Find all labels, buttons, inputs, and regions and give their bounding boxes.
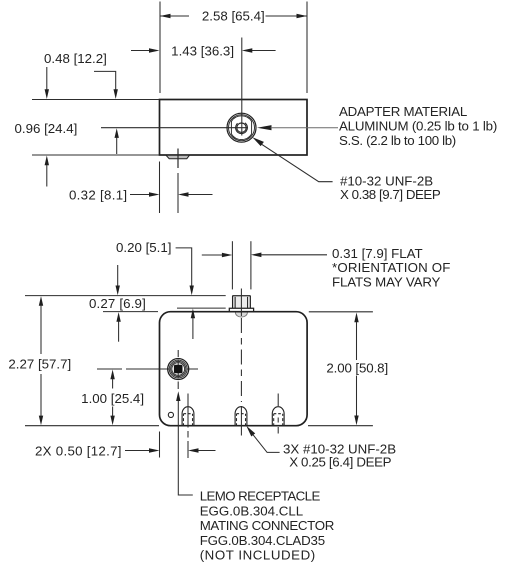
bottom edge extension left (25, 425, 159, 427)
svg-text:0.48 [12.2]: 0.48 [12.2] (44, 51, 107, 66)
svg-text:0.31 [7.9] FLAT: 0.31 [7.9] FLAT (332, 246, 423, 261)
svg-text:2.00 [50.8]: 2.00 [50.8] (326, 360, 388, 375)
front view body outline (160, 312, 308, 426)
svg-text:EGG.0B.304.CLL: EGG.0B.304.CLL (200, 503, 303, 518)
dimension 2.00 [50.8] (326, 313, 388, 426)
thread minor circle (237, 123, 246, 132)
bottom hole 1 (182, 394, 194, 438)
note flat orientation (332, 246, 450, 290)
svg-text:LEMO RECEPTACLE: LEMO RECEPTACLE (200, 489, 321, 504)
line A stud-top extension (25, 295, 226, 297)
top view body outline (160, 100, 308, 156)
mounting hole chamfer circle (229, 115, 255, 141)
svg-text:0.96 [24.4]: 0.96 [24.4] (15, 121, 78, 136)
line B flange-top extension (177, 307, 226, 309)
dimension 2.27 [57.7] (8, 296, 71, 425)
small index hole (168, 412, 173, 417)
body-top extension right (309, 311, 373, 313)
extension line top-left (x=160 above rect) (159, 2, 161, 94)
stud flats outline (231, 116, 251, 140)
dimension 0.32 [8.1] (69, 188, 213, 203)
0.20 partner down arrow (116, 265, 120, 295)
top view bottom tab (166, 155, 190, 159)
0.96 up arrow (45, 156, 49, 187)
svg-text:0.20 [5.1]: 0.20 [5.1] (116, 240, 171, 255)
svg-text:X 0.25 [6.4] DEEP: X 0.25 [6.4] DEEP (289, 455, 391, 470)
leader arrow to adapter material note (257, 125, 338, 130)
svg-text:(NOT INCLUDED): (NOT INCLUDED) (200, 548, 316, 563)
dimension 1.00 [25.4] (81, 370, 144, 426)
leader to lemo note (176, 391, 193, 495)
0.20 up arrow at flange line (191, 309, 195, 340)
hidden chamfer arc under stud (235, 313, 247, 318)
top edge extension line left (32, 99, 159, 101)
svg-text:1.00 [25.4]: 1.00 [25.4] (81, 391, 144, 406)
0.27 up arrow (116, 312, 120, 342)
0.31 extension line left (231, 241, 233, 289)
svg-text:1.43 [36.3]: 1.43 [36.3] (171, 43, 234, 58)
bottom hole 3 (272, 394, 284, 434)
receptacle horizontal centerline (97, 368, 198, 370)
dimension 1.43 [36.3] (131, 43, 276, 58)
body-top extension left (103, 311, 158, 313)
svg-text:0.32 [8.1]: 0.32 [8.1] (69, 188, 127, 203)
bottom edge extension right (308, 425, 373, 427)
leader to thread note (252, 137, 332, 182)
svg-text:2.27 [57.7]: 2.27 [57.7] (8, 357, 71, 372)
svg-text:FLATS MAY VARY: FLATS MAY VARY (332, 274, 441, 289)
svg-text:*ORIENTATION OF: *ORIENTATION OF (332, 260, 450, 275)
0.31 extension line right (250, 241, 252, 289)
tab center tick (177, 149, 179, 169)
note 3X thread spec (283, 441, 396, 469)
svg-text:FGG.0B.304.CLAD35: FGG.0B.304.CLAD35 (200, 533, 325, 548)
stud thread root lines (235, 297, 248, 308)
lemo receptacle center socket (174, 365, 183, 374)
svg-text:2.58 [65.4]: 2.58 [65.4] (202, 9, 265, 24)
note lemo receptacle (200, 489, 334, 563)
bottom edge extension line left (32, 154, 159, 156)
svg-text:ALUMINUM (0.25 lb to 1 lb): ALUMINUM (0.25 lb to 1 lb) (339, 119, 497, 134)
extension line x=178 below tab (177, 173, 179, 213)
stud/body vertical centerline (240, 289, 242, 317)
note adapter material (339, 104, 497, 148)
extension line x=159.5 below rect (159, 162, 161, 214)
hole vertical centerline (241, 38, 243, 136)
leader 0.20 elbow down arrow (176, 248, 194, 295)
leader 0.48 elbow and down arrow (94, 71, 118, 99)
thread major arc (233, 119, 249, 135)
note thread spec top view (340, 174, 441, 203)
dimension 2X 0.50 [12.7] (35, 432, 216, 459)
extension line top-right (x=307 above rect) (306, 2, 308, 94)
svg-text:0.27 [6.9]: 0.27 [6.9] (89, 296, 146, 311)
mounting hole outer circle (227, 113, 256, 142)
receptacle vertical centerline (177, 350, 179, 389)
horizontal centerline through hole (101, 127, 248, 129)
leader to 3X thread note (246, 426, 279, 453)
svg-text:ADAPTER MATERIAL: ADAPTER MATERIAL (339, 104, 467, 119)
stud outline (232, 296, 250, 308)
stud flange (229, 308, 253, 311)
stud thread fill (235, 297, 248, 308)
0.96 down arrow (45, 67, 49, 99)
dimension 2.58 [65.4] (160, 9, 307, 24)
svg-text:X 0.38 [9.7] DEEP: X 0.38 [9.7] DEEP (340, 187, 441, 202)
0.31 dimension arrows (202, 253, 327, 258)
0.48 up arrow at centerline (115, 128, 119, 154)
svg-text:2X 0.50 [12.7]: 2X 0.50 [12.7] (35, 443, 122, 458)
svg-text:MATING CONNECTOR: MATING CONNECTOR (200, 518, 334, 533)
lemo receptacle rings (168, 359, 189, 380)
svg-text:S.S. (2.2 lb to 100 lb): S.S. (2.2 lb to 100 lb) (339, 133, 456, 148)
bottom hole 2 (235, 407, 247, 427)
